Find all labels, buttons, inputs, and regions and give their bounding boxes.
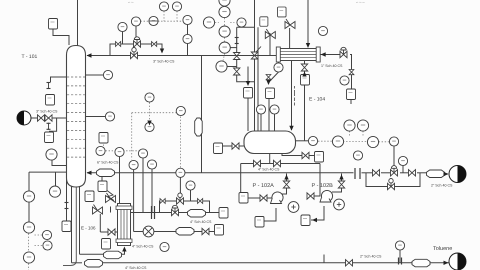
svg-text:3" Sch 40 CS: 3" Sch 40 CS xyxy=(153,60,175,64)
svg-text:4" Sch 40 CS: 4" Sch 40 CS xyxy=(132,245,154,249)
svg-text:-- -- --: -- -- -- xyxy=(356,0,365,4)
svg-text:-- --: -- -- xyxy=(128,0,133,4)
svg-text:P - 102B: P - 102B xyxy=(312,183,334,189)
svg-text:6" Sch 40 CS: 6" Sch 40 CS xyxy=(97,161,119,165)
svg-text:4" Sch 40 CS: 4" Sch 40 CS xyxy=(190,220,212,224)
svg-text:1" Sch 40 CS: 1" Sch 40 CS xyxy=(321,64,343,68)
svg-text:2" Sch 40 CS: 2" Sch 40 CS xyxy=(360,255,382,259)
svg-text:4" Sch 40 CS: 4" Sch 40 CS xyxy=(258,168,280,172)
svg-text:Toluene: Toluene xyxy=(433,246,452,252)
svg-text:P - 102A: P - 102A xyxy=(253,183,275,189)
svg-text:T - 101: T - 101 xyxy=(22,54,38,60)
svg-text:3" Sch 40 CS: 3" Sch 40 CS xyxy=(36,110,58,114)
svg-text:4" Sch 40 CS: 4" Sch 40 CS xyxy=(125,266,147,270)
svg-text:E - 104: E - 104 xyxy=(309,97,325,103)
svg-text:2" Sch 40 CS: 2" Sch 40 CS xyxy=(431,184,453,188)
svg-text:E - 106: E - 106 xyxy=(81,226,96,231)
